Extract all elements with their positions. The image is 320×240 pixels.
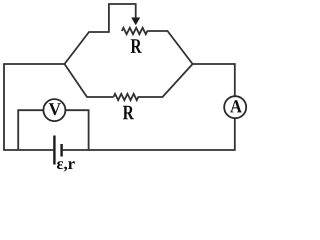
wire: bottom branch left diagonal <box>65 64 114 97</box>
ammeter A circle <box>224 96 246 118</box>
wire: top branch left diagonal and slider step <box>65 4 136 64</box>
label r <box>68 161 75 169</box>
label R (bottom) <box>123 106 134 120</box>
resistor R (top, rheostat track) <box>122 28 193 64</box>
resistor R (bottom) <box>114 64 193 100</box>
battery cell long plate (ε,r) <box>53 136 55 165</box>
voltmeter V circle <box>43 99 65 121</box>
label A <box>230 100 242 112</box>
slider arrowhead <box>131 18 140 26</box>
battery cell short plate <box>60 144 62 157</box>
label R (top) <box>131 39 142 53</box>
label comma <box>64 167 67 172</box>
wire: left vertical + top-left horizontal <box>4 64 65 150</box>
label V <box>49 103 61 115</box>
wire: voltmeter loop <box>18 110 88 150</box>
label epsilon <box>57 161 63 169</box>
wire: bottom + right vertical + top-right horizontal <box>63 64 235 150</box>
